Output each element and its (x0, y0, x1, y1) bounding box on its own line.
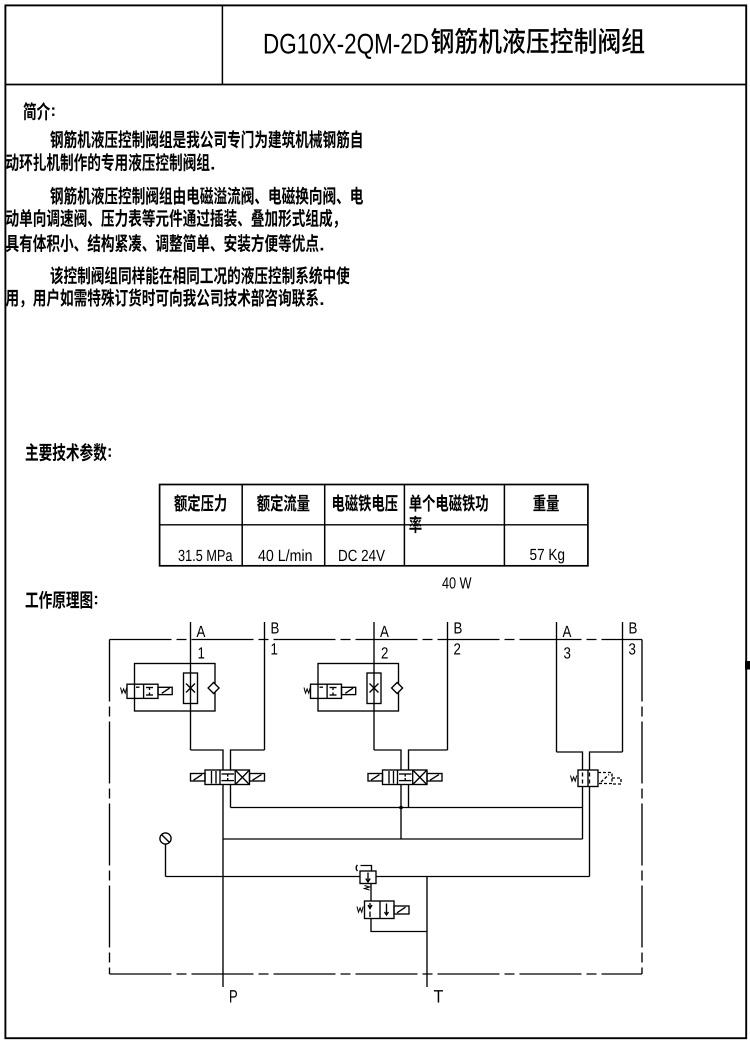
wire: DV2 right stub to T bus (408, 785, 410, 808)
TV2 check valve diamond (392, 683, 403, 694)
wire: DV2 left stub to P bus (400, 785, 402, 840)
wire: DV3 left stub to P bus (582, 787, 584, 840)
intro heading (23, 102, 54, 120)
title: DG10X-2QM-2D (latin) (265, 34, 428, 59)
TV2 solenoid actuator (311, 684, 342, 698)
table header cells (174, 494, 559, 533)
section label: working principle diagram (26, 591, 98, 609)
TV1 plunger (158, 687, 172, 694)
wire: UV1 outlet to T line (371, 919, 427, 932)
one-way speed regulating valve TV2 enclosure (318, 664, 399, 712)
DV2 right spring/solenoid wing (427, 774, 442, 782)
table values (178, 549, 564, 589)
wire A1 jog to valve (191, 750, 224, 770)
port labels A/B and station numbers (197, 622, 637, 658)
solenoid valve DV3 (station 3, dashed) (571, 770, 622, 787)
port A3 line (556, 622, 558, 752)
pressure gauge PG1 (160, 833, 171, 877)
port T label (434, 990, 443, 1002)
wire: T bus (upper horizontal) (231, 807, 583, 809)
DV1 right spring/solenoid wing (250, 774, 265, 782)
wire: P bus (lower horizontal) (223, 838, 583, 840)
wire: DV1 T-stub to T bus (230, 785, 232, 808)
port A2 line (373, 622, 375, 750)
wire B2 jog to valve (409, 750, 448, 770)
manifold enclosure (dash-dot boundary) (110, 640, 643, 975)
TV1 manual override W (121, 688, 127, 694)
wire B1 jog to valve (231, 750, 265, 770)
TV2 throttle element (367, 673, 381, 704)
unloading solenoid valve UV1 (357, 901, 409, 919)
wire B3 jog to valve (590, 752, 623, 770)
wire: gauge/relief line (166, 876, 590, 878)
port B2 line (447, 622, 449, 750)
wire A2 jog to valve (374, 750, 401, 770)
port A1 line (190, 622, 192, 750)
port P label (230, 990, 237, 1002)
intro paragraph (6, 130, 363, 307)
wire: DV3 right stub down to gauge line (589, 787, 591, 877)
junction dot DV2/T-bus (399, 806, 403, 810)
port B3 line (622, 622, 624, 752)
solenoid directional valve DV1 (191, 770, 265, 785)
TV1 solenoid actuator (127, 684, 158, 698)
DV2 left spring/solenoid wing (368, 774, 383, 782)
wire: T line down to port T (426, 877, 428, 988)
title CJK (431, 28, 644, 54)
section label: main technical parameters (26, 443, 111, 461)
port B1 line (264, 622, 266, 750)
one-way speed regulating valve TV1 enclosure (135, 664, 216, 712)
solenoid directional valve DV2 (368, 770, 442, 785)
TV2 plunger (342, 687, 356, 694)
wire: DV1 P-stub down to P line (222, 785, 224, 988)
TV1 throttle element (184, 673, 198, 704)
TV1 check valve diamond (208, 683, 219, 694)
wire A3 jog to valve (557, 752, 583, 770)
DV1 left spring/solenoid wing (191, 774, 206, 782)
relief valve RV1 (356, 865, 376, 901)
TV2 manual override W (304, 688, 310, 694)
